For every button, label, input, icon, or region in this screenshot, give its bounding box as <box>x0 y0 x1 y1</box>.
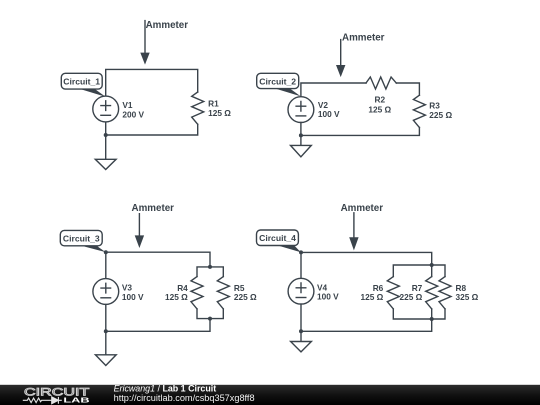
svg-text:R3: R3 <box>429 100 440 110</box>
logo CIRCUIT text <box>24 386 90 398</box>
svg-text:200 V: 200 V <box>122 109 144 119</box>
logo LAB text <box>63 396 89 405</box>
callout label Circuit_3 <box>60 230 105 252</box>
resistor R4 <box>191 277 203 309</box>
svg-text:LAB: LAB <box>63 396 89 405</box>
wire: circuit 1 bottom rail <box>106 122 198 135</box>
node: circuit 4 branch top junction <box>430 263 434 267</box>
value label V4 100 V <box>317 282 339 301</box>
wire: circuit 2 top rail left segment <box>301 83 366 97</box>
callout label Circuit_2 <box>257 73 301 96</box>
resistor R2 (horizontal) <box>366 77 396 89</box>
svg-text:325 Ω: 325 Ω <box>456 292 479 302</box>
svg-text:Circuit_2: Circuit_2 <box>259 76 296 86</box>
ground (circuit 3) <box>95 331 116 365</box>
callout label Circuit_4 <box>257 230 301 252</box>
svg-text:125 Ω: 125 Ω <box>208 108 231 118</box>
svg-text:Ammeter: Ammeter <box>341 203 384 214</box>
node: circuit 3 branch top junction <box>208 265 212 269</box>
value label R7 225 ohm <box>399 283 422 302</box>
svg-text:Circuit_4: Circuit_4 <box>259 233 296 243</box>
value label V1 200 V <box>122 100 144 119</box>
svg-text:Circuit_1: Circuit_1 <box>63 77 100 87</box>
wire: circuit 4 top rail <box>301 252 432 265</box>
wire: circuit 3 top rail <box>106 252 210 267</box>
ammeter arrow (circuit 4) <box>349 213 358 251</box>
node: circuit 1 bottom junction <box>104 133 108 137</box>
value label R8 325 ohm <box>456 283 479 302</box>
ammeter arrow (circuit 3) <box>135 214 144 248</box>
resistor R8 <box>439 277 451 309</box>
svg-text:125 Ω: 125 Ω <box>360 292 383 302</box>
value label V2 100 V <box>318 100 340 119</box>
svg-text:225 Ω: 225 Ω <box>429 110 452 120</box>
resistor R5 <box>217 277 229 309</box>
svg-text:Ericwang1 / Lab 1 Circuit: Ericwang1 / Lab 1 Circuit <box>114 383 217 393</box>
wire: circuit 2 bottom rail <box>301 123 420 136</box>
wire: circuit 2 top rail right segment <box>396 83 419 95</box>
svg-text:R2: R2 <box>374 95 385 105</box>
resistor R1 <box>192 92 204 124</box>
callout label Circuit_1 <box>61 73 105 97</box>
node: circuit 2 bottom junction <box>299 133 303 137</box>
voltage source V4 <box>288 278 314 304</box>
value label R5 225 ohm <box>234 283 257 302</box>
value label R4 125 ohm <box>165 283 188 302</box>
value label R6 125 ohm <box>360 283 383 302</box>
svg-text:125 Ω: 125 Ω <box>368 105 391 115</box>
ground (circuit 4) <box>291 331 312 352</box>
svg-text:Circuit_3: Circuit_3 <box>63 234 100 244</box>
footer url line <box>114 393 255 403</box>
node: circuit 4 bottom-left junction <box>299 329 303 333</box>
voltage source V3 <box>93 279 119 305</box>
svg-text:Ammeter: Ammeter <box>132 203 175 214</box>
ammeter arrow (circuit 1) <box>140 21 149 65</box>
node: circuit 3 branch bottom junction <box>208 317 212 321</box>
resistor R3 <box>413 95 425 127</box>
svg-text:100 V: 100 V <box>122 292 144 302</box>
resistor R6 <box>387 277 399 309</box>
resistor R7 <box>426 277 438 309</box>
value label V3 100 V <box>122 283 144 302</box>
wire: circuit 4 left drop to source <box>300 252 302 278</box>
svg-text:100 V: 100 V <box>318 109 340 119</box>
node: circuit 3 bottom-left junction <box>104 329 108 333</box>
svg-text:Ammeter: Ammeter <box>146 20 189 31</box>
value label R1 125 ohm <box>208 98 231 118</box>
footer title line <box>114 383 217 393</box>
footer bar background <box>0 385 540 405</box>
node: circuit 4 branch bottom junction <box>430 317 434 321</box>
svg-text:100 V: 100 V <box>317 292 339 302</box>
svg-text:225 Ω: 225 Ω <box>399 292 422 302</box>
wire: parallel branch stubs (circuit 3) <box>197 267 223 319</box>
ground (circuit 2) <box>291 135 312 156</box>
svg-text:225 Ω: 225 Ω <box>234 292 257 302</box>
voltage source V1 <box>93 96 119 122</box>
annotation text Ammeter (circuit 3) <box>132 203 175 214</box>
value label R2 125 ohm <box>368 95 391 115</box>
svg-text:http://circuitlab.com/csbq357x: http://circuitlab.com/csbq357xg8ff8 <box>114 393 255 403</box>
wire: circuit 1 top rail and left/right drops <box>106 69 198 96</box>
logo resistor zigzag <box>23 398 52 403</box>
svg-text:125 Ω: 125 Ω <box>165 292 188 302</box>
logo diode symbol <box>52 397 62 404</box>
ammeter arrow (circuit 2) <box>336 40 345 78</box>
svg-text:Ammeter: Ammeter <box>342 33 385 44</box>
node: circuit 4 top-left junction <box>299 250 303 254</box>
wire: circuit 3 bottom rail <box>106 304 210 331</box>
annotation text Ammeter (circuit 4) <box>341 203 384 214</box>
wire: circuit 4 bottom rail <box>301 304 432 331</box>
svg-text:R1: R1 <box>208 98 219 108</box>
ground (circuit 1) <box>95 135 116 170</box>
value label R3 225 ohm <box>429 100 452 120</box>
annotation text Ammeter (circuit 2) <box>342 33 385 44</box>
wire: parallel branch stubs (circuit 4) <box>393 265 445 319</box>
node: circuit 3 top-left junction <box>104 250 108 254</box>
annotation text Ammeter (circuit 1) <box>146 20 189 31</box>
voltage source V2 <box>288 97 314 123</box>
wire: circuit 3 left drop to source <box>105 252 107 278</box>
